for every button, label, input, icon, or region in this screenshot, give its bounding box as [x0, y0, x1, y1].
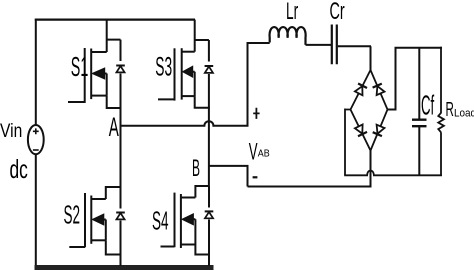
transistor S1 (MOSFET): [68, 48, 107, 103]
wire S3 drain from top rail: [194, 20, 196, 52]
wire S4 diode branch tee: [194, 186, 209, 208]
wire S3 diode branch tee: [195, 40, 209, 62]
svg-text:dc: dc: [10, 154, 28, 183]
wire bridge left vertex to DC- rail: [345, 109, 351, 176]
wire bridge right vertex to DC+ rail: [388, 48, 443, 111]
wire S2 source junction to bottom rail: [105, 240, 122, 266]
svg-text:AB: AB: [258, 148, 270, 160]
diode D6 (bridge upper-right): [373, 84, 385, 96]
wire Lr to Cr: [306, 44, 332, 46]
diode D4 (antiparallel S4): [205, 211, 214, 218]
label RLoad: [446, 99, 474, 121]
wire node B to bridge bottom (via - terminal): [209, 151, 371, 188]
diode bridge diamond frame: [351, 70, 388, 151]
svg-text:V: V: [249, 139, 258, 166]
node A vertical (S1/S2 midpoint leg): [120, 108, 122, 187]
diode D1 (antiparallel S1): [116, 66, 125, 73]
transistor S3 (MOSFET): [158, 48, 195, 100]
wire S1 source junction bar: [106, 96, 122, 108]
diode D3 (antiparallel S3): [205, 66, 214, 73]
transistor S2 (MOSFET): [69, 193, 106, 247]
svg-text:Vin: Vin: [0, 119, 22, 141]
svg-text:A: A: [109, 111, 119, 142]
wire node A rail to + terminal (hops over S3/S4 leg): [121, 43, 270, 127]
wire S2 diode branch tee: [105, 187, 121, 209]
svg-text:R: R: [446, 99, 455, 121]
wire top rail: [35, 19, 195, 21]
svg-text:S3: S3: [155, 53, 172, 82]
svg-text:S2: S2: [64, 201, 81, 230]
label VAB: [249, 139, 270, 166]
svg-text:Cf: Cf: [421, 89, 435, 121]
wire S3 source junction bar: [194, 96, 210, 108]
wire S3 diode cathode lead: [208, 74, 210, 108]
svg-text:S1: S1: [71, 51, 88, 82]
wire S4 source junction to bottom rail: [194, 245, 210, 267]
wire S4 diode cathode lead: [208, 219, 210, 254]
capacitor Cr: [332, 25, 337, 65]
wire Cr to bridge top vertex: [338, 46, 371, 70]
wire left rail (Vin branch): [35, 19, 37, 266]
wire bottom rail: [35, 265, 214, 270]
diode D7 (bridge lower-left): [355, 125, 367, 137]
diode D8 (bridge lower-right): [373, 125, 385, 136]
diode D5 (bridge upper-left): [355, 84, 367, 96]
svg-text:S4: S4: [152, 207, 169, 236]
wire S1 diode cathode lead: [120, 74, 122, 109]
resistor RLoad: [438, 47, 444, 176]
capacitor Cf: [412, 48, 427, 176]
transistor S4 (MOSFET): [161, 193, 196, 248]
dc source Vin: [28, 125, 44, 154]
diode D2 (antiparallel S2): [116, 213, 125, 220]
node B vertical (S3/S4 midpoint leg): [208, 108, 210, 186]
label - (VAB negative terminal): [253, 176, 258, 178]
wire DC- rail (hops over B wire): [344, 171, 442, 176]
label + (VAB positive terminal): [253, 108, 259, 119]
wire S2 diode cathode lead: [120, 221, 122, 255]
svg-text:B: B: [192, 156, 200, 183]
wire S1 drain from top rail: [106, 20, 108, 52]
svg-text:Cr: Cr: [330, 0, 345, 25]
wire S1 diode branch tee: [107, 40, 121, 61]
inductor Lr: [270, 27, 306, 45]
svg-text:Load: Load: [454, 108, 474, 120]
svg-text:Lr: Lr: [286, 0, 299, 25]
